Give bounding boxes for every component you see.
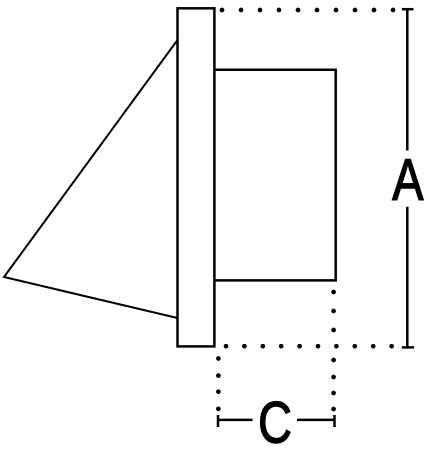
svg-text:A: A [392,148,424,213]
bottom extension dotted line [224,344,394,349]
hood triangle profile [4,40,178,318]
dimension line C [218,415,335,427]
dimension line A [402,9,414,347]
right vertical dotted extension (from duct corner) [331,290,336,412]
svg-text:C: C [258,391,292,456]
flange (tall vertical rectangle) [178,8,215,346]
duct box [214,70,335,281]
left vertical dotted extension (from flange face) [216,356,221,411]
top extension dotted line [220,8,396,13]
